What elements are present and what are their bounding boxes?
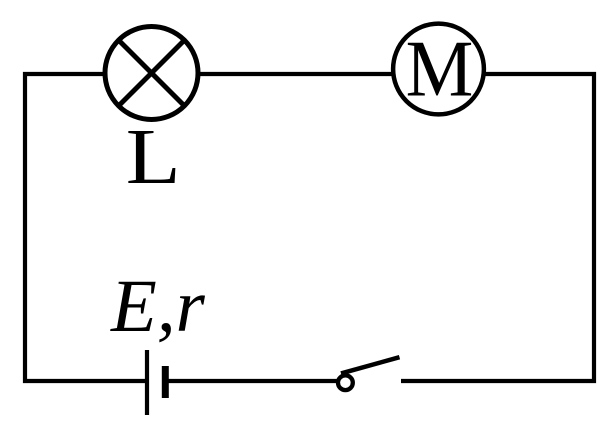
svg-text:E,r: E,r: [110, 265, 206, 348]
wire: battery to switch: [166, 379, 338, 383]
svg-text:M: M: [406, 24, 474, 114]
label L: [126, 114, 181, 201]
wire: motor to top-right, right side, bottom-right to switch: [401, 74, 594, 381]
wire: top-left, left side, bottom-left to battery: [25, 74, 145, 381]
lamp L: [105, 27, 198, 120]
label E,r: [110, 265, 206, 348]
motor U1: [393, 24, 484, 115]
svg-text:L: L: [126, 114, 181, 201]
wire: lamp to motor: [199, 72, 392, 76]
battery E,r: [147, 350, 165, 415]
switch S: [338, 357, 400, 390]
